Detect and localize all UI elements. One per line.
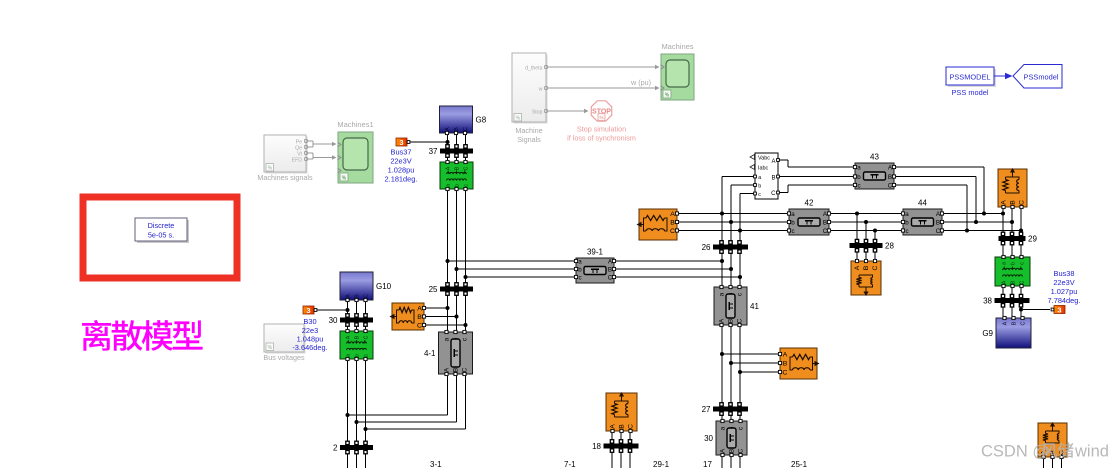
- svg-text:a: a: [720, 426, 727, 430]
- svg-text:A: A: [670, 211, 675, 218]
- svg-text:Bus38: Bus38: [1054, 269, 1075, 278]
- svg-text:Signals: Signals: [517, 135, 541, 144]
- svg-text:28: 28: [885, 242, 894, 251]
- svg-text:C: C: [738, 448, 745, 453]
- svg-text:44: 44: [918, 199, 927, 208]
- svg-text:22e3V: 22e3V: [390, 157, 411, 166]
- svg-text:B: B: [728, 319, 735, 323]
- svg-text:26: 26: [702, 243, 711, 252]
- svg-text:4-1: 4-1: [424, 349, 436, 358]
- svg-text:C: C: [670, 228, 675, 235]
- svg-text:25: 25: [429, 285, 438, 294]
- svg-text:Discrete: Discrete: [148, 221, 175, 230]
- svg-text:a: a: [445, 184, 451, 187]
- svg-text:A: A: [1002, 321, 1008, 325]
- svg-text:b: b: [354, 354, 360, 357]
- svg-text:EFD: EFD: [292, 158, 303, 164]
- svg-text:G9: G9: [982, 329, 993, 338]
- svg-text:A: A: [610, 424, 617, 429]
- svg-text:B30: B30: [303, 317, 316, 326]
- svg-text:a: a: [758, 175, 761, 181]
- svg-text:C: C: [1020, 321, 1026, 325]
- svg-text:C: C: [363, 294, 369, 298]
- svg-text:C: C: [771, 191, 776, 197]
- svg-text:B: B: [354, 294, 360, 298]
- svg-text:b: b: [791, 219, 795, 226]
- svg-text:B: B: [863, 265, 870, 270]
- svg-text:B: B: [608, 266, 612, 273]
- svg-text:Stop: Stop: [532, 110, 543, 116]
- svg-text:PSS model: PSS model: [952, 88, 989, 97]
- svg-text:C: C: [1019, 200, 1026, 205]
- svg-text:30: 30: [329, 316, 338, 325]
- svg-text:A: A: [345, 335, 351, 339]
- svg-text:c: c: [1019, 262, 1025, 265]
- svg-text:B: B: [670, 220, 675, 227]
- svg-text:Iabc: Iabc: [758, 166, 768, 172]
- svg-text:A: A: [345, 294, 351, 298]
- svg-text:a: a: [444, 337, 451, 341]
- svg-text:C: C: [363, 335, 369, 339]
- svg-text:7.784deg.: 7.784deg.: [1048, 296, 1081, 305]
- svg-text:Bus voltages: Bus voltages: [263, 353, 305, 362]
- svg-text:Machines: Machines: [661, 42, 693, 51]
- svg-text:C: C: [462, 367, 469, 372]
- svg-text:18: 18: [592, 442, 601, 451]
- svg-text:PSSmodel: PSSmodel: [1024, 73, 1059, 82]
- svg-text:a: a: [578, 258, 582, 265]
- svg-text:a: a: [905, 211, 909, 218]
- svg-text:17: 17: [703, 460, 712, 468]
- svg-text:PSSMODEL: PSSMODEL: [949, 73, 990, 82]
- svg-text:B: B: [619, 424, 626, 429]
- svg-text:b: b: [905, 219, 909, 226]
- svg-text:C: C: [783, 370, 788, 377]
- svg-text:c: c: [363, 354, 369, 357]
- svg-text:B: B: [1010, 280, 1016, 284]
- svg-text:%: %: [516, 116, 521, 122]
- svg-text:G8: G8: [476, 116, 487, 125]
- svg-text:B: B: [823, 219, 827, 226]
- svg-text:Stop simulation: Stop simulation: [577, 125, 626, 134]
- svg-text:C: C: [417, 323, 422, 330]
- svg-text:-3.646deg.: -3.646deg.: [292, 343, 327, 352]
- svg-text:1.028pu: 1.028pu: [388, 166, 415, 175]
- svg-text:B: B: [1010, 200, 1017, 205]
- svg-text:B: B: [454, 127, 460, 131]
- svg-text:A: A: [1001, 200, 1008, 205]
- svg-text:w: w: [539, 87, 543, 93]
- svg-text:B: B: [783, 361, 788, 368]
- svg-text:A: A: [445, 127, 451, 131]
- svg-text:a: a: [345, 354, 351, 357]
- svg-text:c: c: [578, 274, 581, 281]
- svg-text:b: b: [758, 184, 761, 190]
- svg-text:B: B: [453, 368, 460, 372]
- svg-text:B: B: [354, 335, 360, 339]
- svg-text:39-1: 39-1: [587, 248, 604, 257]
- svg-text:A: A: [445, 166, 451, 170]
- svg-text:29: 29: [1028, 235, 1037, 244]
- svg-text:wind: wind: [1074, 443, 1109, 461]
- svg-text:C: C: [463, 166, 469, 170]
- svg-text:C: C: [737, 318, 744, 323]
- svg-text:%: %: [599, 115, 603, 120]
- svg-text:A: A: [720, 448, 727, 453]
- svg-text:5e-05 s.: 5e-05 s.: [148, 231, 174, 240]
- svg-text:3: 3: [306, 306, 310, 315]
- svg-text:41: 41: [750, 302, 759, 311]
- svg-text:B: B: [936, 219, 940, 226]
- svg-text:B: B: [888, 174, 892, 181]
- svg-text:A: A: [719, 318, 726, 323]
- svg-text:a: a: [719, 292, 726, 296]
- svg-text:Vabc: Vabc: [758, 156, 770, 162]
- svg-text:c: c: [758, 192, 761, 198]
- svg-text:2: 2: [333, 444, 338, 453]
- svg-text:3: 3: [399, 138, 403, 147]
- svg-text:A: A: [444, 367, 451, 372]
- svg-text:w (pu): w (pu): [630, 78, 651, 87]
- svg-text:c: c: [791, 228, 794, 235]
- svg-text:Machines1: Machines1: [337, 120, 373, 129]
- svg-text:b: b: [578, 266, 582, 273]
- svg-text:Bus37: Bus37: [391, 148, 412, 157]
- svg-text:C: C: [1059, 450, 1066, 455]
- svg-text:b: b: [1010, 262, 1016, 265]
- svg-text:c: c: [857, 182, 860, 189]
- svg-text:B: B: [1011, 321, 1017, 325]
- svg-text:3-1: 3-1: [430, 460, 442, 468]
- svg-text:%: %: [665, 93, 670, 99]
- svg-text:3: 3: [1057, 305, 1061, 314]
- svg-text:b: b: [454, 184, 460, 187]
- svg-text:A: A: [854, 265, 861, 270]
- svg-text:c: c: [463, 184, 469, 187]
- svg-text:C: C: [628, 424, 635, 429]
- svg-text:B: B: [771, 176, 775, 182]
- svg-text:27: 27: [702, 405, 711, 414]
- svg-text:Machine: Machine: [515, 126, 542, 135]
- svg-text:C: C: [872, 265, 879, 270]
- svg-text:25-1: 25-1: [791, 460, 808, 468]
- svg-text:A: A: [1001, 280, 1007, 284]
- svg-text:B: B: [454, 166, 460, 170]
- svg-text:43: 43: [870, 153, 879, 162]
- svg-text:c: c: [905, 228, 908, 235]
- svg-text:if loss of synchronism: if loss of synchronism: [567, 134, 636, 143]
- svg-text:a: a: [791, 211, 795, 218]
- svg-text:B: B: [729, 449, 736, 453]
- svg-text:Machines signals: Machines signals: [257, 173, 313, 182]
- svg-text:C: C: [463, 127, 469, 131]
- svg-text:CSDN @: CSDN @: [981, 443, 1049, 461]
- svg-text:d_theta: d_theta: [525, 66, 542, 72]
- svg-text:%: %: [268, 345, 273, 351]
- svg-text:a: a: [857, 164, 861, 171]
- svg-text:%: %: [342, 176, 347, 182]
- svg-text:38: 38: [983, 297, 992, 306]
- svg-text:G10: G10: [376, 282, 392, 291]
- svg-text:B: B: [417, 314, 422, 321]
- svg-text:30: 30: [704, 434, 713, 443]
- svg-text:A: A: [783, 352, 788, 359]
- svg-text:37: 37: [429, 147, 438, 156]
- svg-text:42: 42: [805, 199, 814, 208]
- svg-text:C: C: [1019, 280, 1025, 284]
- svg-text:7-1: 7-1: [564, 460, 576, 468]
- svg-text:a: a: [1001, 262, 1007, 265]
- svg-text:29-1: 29-1: [653, 460, 670, 468]
- svg-text:A: A: [771, 159, 775, 165]
- svg-text:A: A: [417, 306, 422, 313]
- svg-text:2.181deg.: 2.181deg.: [385, 175, 418, 184]
- svg-text:%: %: [268, 166, 273, 172]
- svg-text:b: b: [857, 174, 861, 181]
- svg-text:1.027pu: 1.027pu: [1051, 287, 1078, 296]
- svg-text:22e3V: 22e3V: [1053, 278, 1074, 287]
